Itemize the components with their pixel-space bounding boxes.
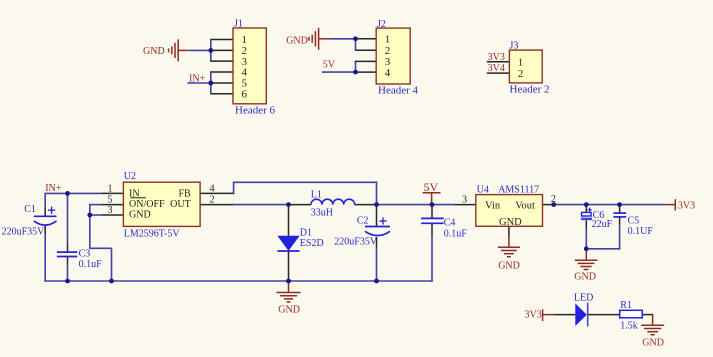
svg-text:22uF: 22uF (592, 219, 613, 230)
svg-text:4: 4 (210, 184, 215, 195)
svg-text:GND: GND (499, 217, 522, 228)
svg-text:33uH: 33uH (311, 208, 333, 219)
svg-text:GND: GND (278, 305, 300, 316)
svg-text:GND: GND (286, 36, 308, 47)
svg-text:GND: GND (143, 46, 165, 57)
svg-text:2: 2 (551, 194, 556, 205)
svg-text:U4: U4 (477, 185, 489, 196)
svg-text:U2: U2 (124, 171, 136, 182)
svg-text:0.1uF: 0.1uF (444, 229, 468, 240)
svg-text:OUT: OUT (170, 199, 191, 210)
svg-text:C2: C2 (357, 216, 369, 227)
svg-text:GND: GND (129, 210, 151, 221)
svg-text:1: 1 (518, 57, 524, 69)
svg-text:Header 4: Header 4 (378, 85, 419, 97)
svg-text:5V: 5V (424, 180, 439, 194)
svg-text:J3: J3 (510, 41, 519, 52)
svg-text:Vout: Vout (515, 201, 535, 212)
svg-text:3V4: 3V4 (488, 63, 505, 74)
svg-text:3V3: 3V3 (488, 52, 505, 63)
svg-text:C4: C4 (444, 218, 456, 229)
svg-text:GND: GND (574, 272, 596, 283)
svg-text:Header 2: Header 2 (510, 84, 550, 96)
svg-text:2: 2 (385, 45, 391, 57)
svg-text:R1: R1 (620, 300, 632, 311)
svg-text:LED: LED (574, 293, 593, 304)
svg-text:GND: GND (498, 261, 520, 272)
svg-text:C1: C1 (24, 204, 36, 215)
svg-text:2: 2 (518, 68, 524, 80)
svg-text:L1: L1 (311, 190, 322, 201)
svg-text:3V3: 3V3 (525, 309, 542, 320)
svg-text:1.5k: 1.5k (620, 321, 638, 332)
svg-text:C3: C3 (79, 249, 91, 260)
svg-text:5: 5 (108, 195, 113, 206)
svg-text:IN+: IN+ (189, 74, 206, 85)
svg-text:0.1uF: 0.1uF (79, 259, 103, 270)
svg-text:3: 3 (108, 205, 113, 216)
svg-text:J2: J2 (377, 19, 386, 30)
svg-text:4: 4 (385, 67, 391, 79)
svg-text:2: 2 (210, 195, 215, 206)
svg-text:3V3: 3V3 (678, 201, 695, 212)
svg-text:GND: GND (642, 338, 664, 349)
svg-text:AMS1117: AMS1117 (498, 185, 539, 196)
svg-text:220uF35V: 220uF35V (2, 227, 46, 238)
svg-text:J1: J1 (234, 19, 243, 30)
svg-text:Header 6: Header 6 (235, 105, 276, 117)
svg-text:1: 1 (108, 184, 113, 195)
svg-text:3: 3 (462, 195, 467, 206)
svg-text:5V: 5V (323, 60, 336, 71)
svg-text:0.1UF: 0.1UF (628, 226, 654, 237)
svg-text:IN+: IN+ (45, 183, 62, 194)
svg-text:ON/OFF: ON/OFF (129, 199, 165, 210)
svg-text:220uF35V: 220uF35V (334, 237, 378, 248)
svg-text:LM2596T-5V: LM2596T-5V (124, 229, 181, 240)
svg-text:ES2D: ES2D (300, 238, 324, 249)
svg-text:Vin: Vin (485, 201, 501, 212)
svg-text:FB: FB (178, 188, 191, 199)
svg-text:1: 1 (385, 34, 391, 46)
svg-text:C5: C5 (628, 216, 640, 227)
svg-text:6: 6 (242, 88, 248, 100)
